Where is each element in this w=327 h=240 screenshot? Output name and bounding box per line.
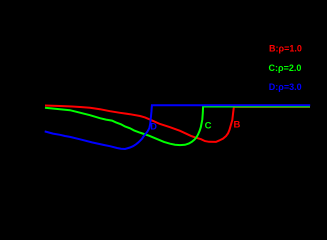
svg-text:B: B: [234, 119, 241, 130]
svg-text:C:ρ=2.0: C:ρ=2.0: [269, 63, 302, 73]
svg-text:D: D: [150, 122, 157, 132]
curve D (blue, rho=3.0): profile, shock at x=150, plateau y=105.2: [45, 105, 311, 149]
svg-text:B:ρ=1.0: B:ρ=1.0: [269, 44, 302, 54]
curve B (red, rho=1.0): profile, shock at x=234, plateau y=106.6: [45, 106, 310, 142]
svg-text:C: C: [205, 121, 212, 132]
svg-text:D:ρ=3.0: D:ρ=3.0: [269, 82, 302, 92]
curve C (green, rho=2.0): profile, shock at x=203, plateau y=106.4: [45, 106, 310, 145]
